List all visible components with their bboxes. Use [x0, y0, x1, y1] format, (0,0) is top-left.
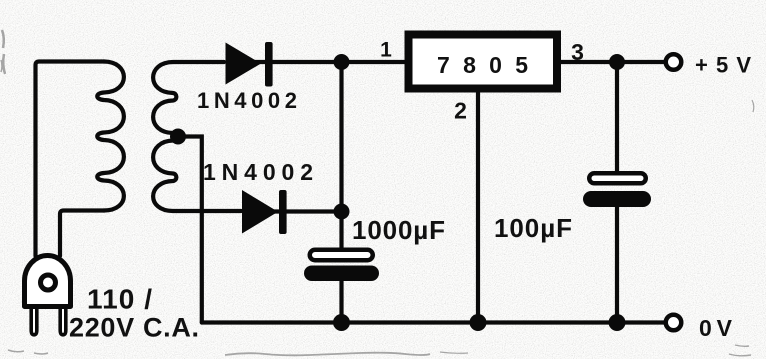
svg-text:+5V: +5V	[695, 53, 751, 78]
terminal +5V	[666, 54, 682, 70]
AC plug left prong	[31, 309, 37, 335]
wire: center tap to down-corner	[178, 137, 202, 323]
wire: 7805 pin 2 down to 0V rail	[476, 92, 480, 323]
scan artifact: bottom wavy line	[225, 353, 430, 356]
wire: D1 cathode to 7805 pin 1	[250, 60, 405, 64]
junction node: D2 cathode / 1000uF	[334, 204, 350, 220]
svg-text:0V: 0V	[699, 315, 733, 341]
terminal 0V	[666, 315, 682, 331]
wire: 7805 pin 3 to +5V terminal	[560, 60, 664, 64]
svg-text:1000µF: 1000µF	[352, 215, 445, 245]
svg-text:2: 2	[454, 98, 467, 124]
wire: bottom 0V rail	[202, 320, 664, 324]
transformer secondary winding	[153, 62, 241, 211]
svg-text:100µF: 100µF	[494, 213, 572, 243]
wire: +5V node down to 100uF top plate	[615, 62, 619, 176]
diode D2 1N4002 (bottom)	[242, 190, 287, 234]
diode D1 1N4002 (top)	[226, 42, 273, 87]
capacitor C1 1000uF top plate	[310, 250, 373, 261]
transformer primary winding	[97, 62, 124, 211]
IC U1 7805 regulator box	[409, 35, 558, 89]
capacitor C2 100uF top plate	[589, 173, 646, 183]
svg-text:1: 1	[380, 39, 392, 62]
wire: 1000uF bottom plate to 0V rail	[339, 279, 343, 323]
wire: primary bottom to plug right lead	[60, 211, 104, 257]
AC plug hole	[41, 275, 56, 290]
wire: 100uF bottom plate to 0V rail	[615, 202, 619, 323]
capacitor C2 100uF bottom plate	[583, 191, 651, 207]
scan artifact: bottom-left specks	[8, 350, 48, 354]
wire: junction down to 1000uF top plate	[339, 62, 343, 250]
junction node: transformer center tap	[170, 129, 186, 145]
junction node: +5V rail / 100uF	[609, 54, 625, 70]
junction node: 1000uF on 0V rail	[333, 314, 350, 331]
AC plug right prong	[60, 309, 66, 335]
svg-text:110 /: 110 /	[87, 284, 152, 315]
svg-text:220V C.A.: 220V C.A.	[69, 313, 199, 343]
junction node: pin2 on 0V rail	[470, 314, 487, 331]
wire: plug left lead up + top of primary	[36, 62, 105, 257]
junction node: 100uF on 0V rail	[609, 314, 626, 331]
AC plug body	[25, 256, 71, 307]
junction node: D1/filter cap top	[334, 54, 350, 70]
svg-text:3: 3	[571, 39, 584, 65]
wire: D2 cathode to junction	[265, 209, 342, 213]
capacitor C1 1000uF bottom plate	[304, 266, 379, 282]
scan artifact: right margin specks	[729, 345, 751, 356]
